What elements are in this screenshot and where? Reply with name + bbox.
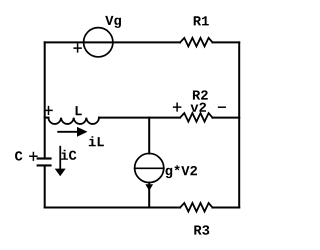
wire: iL arrow shaft xyxy=(58,131,78,133)
wire: bottom wire left segment xyxy=(45,207,180,209)
label + (C polarity) xyxy=(30,153,37,161)
wire: top wire right segment xyxy=(213,41,240,43)
label + (v2 polarity) xyxy=(174,103,181,111)
wire: iC arrow shaft xyxy=(59,147,61,169)
wire: right wire xyxy=(238,42,240,207)
label C xyxy=(15,151,22,160)
inductor L xyxy=(48,118,99,124)
capacitor C bottom plate xyxy=(37,164,52,166)
current source arrowhead xyxy=(145,184,153,191)
voltage source Vg xyxy=(84,28,113,57)
label - (v2 polarity) xyxy=(219,106,226,108)
label v2 xyxy=(191,103,207,112)
wire: left wire upper segment xyxy=(44,42,46,157)
resistor R3 xyxy=(180,203,212,212)
iL arrowhead xyxy=(77,127,88,137)
label L xyxy=(76,106,82,115)
label iC xyxy=(61,150,76,160)
wire: dependent source top lead xyxy=(148,118,150,154)
label R3 xyxy=(194,225,209,234)
wire: bottom wire right segment xyxy=(213,207,240,209)
iC arrowhead xyxy=(55,169,66,177)
wire: dependent source bottom lead xyxy=(148,183,150,208)
wire: middle wire center segment xyxy=(99,117,180,119)
label R2 xyxy=(193,90,208,99)
wire: middle wire right segment xyxy=(213,117,240,119)
label Vg xyxy=(105,16,121,28)
capacitor C top plate xyxy=(37,157,52,159)
label R1 xyxy=(194,16,209,25)
current source g*V2 xyxy=(135,153,164,182)
label g*V2 xyxy=(166,165,197,178)
wire: left wire lower segment xyxy=(44,166,46,207)
resistor R2 xyxy=(180,113,212,122)
wire: middle wire left stub xyxy=(45,117,49,119)
label + (L polarity) xyxy=(45,107,52,115)
wire: top wire left segment through Vg xyxy=(45,41,180,43)
resistor R1 xyxy=(180,38,212,47)
wire: current source chord xyxy=(135,167,164,169)
label + (Vg polarity) xyxy=(74,44,81,52)
label iL xyxy=(89,136,104,146)
